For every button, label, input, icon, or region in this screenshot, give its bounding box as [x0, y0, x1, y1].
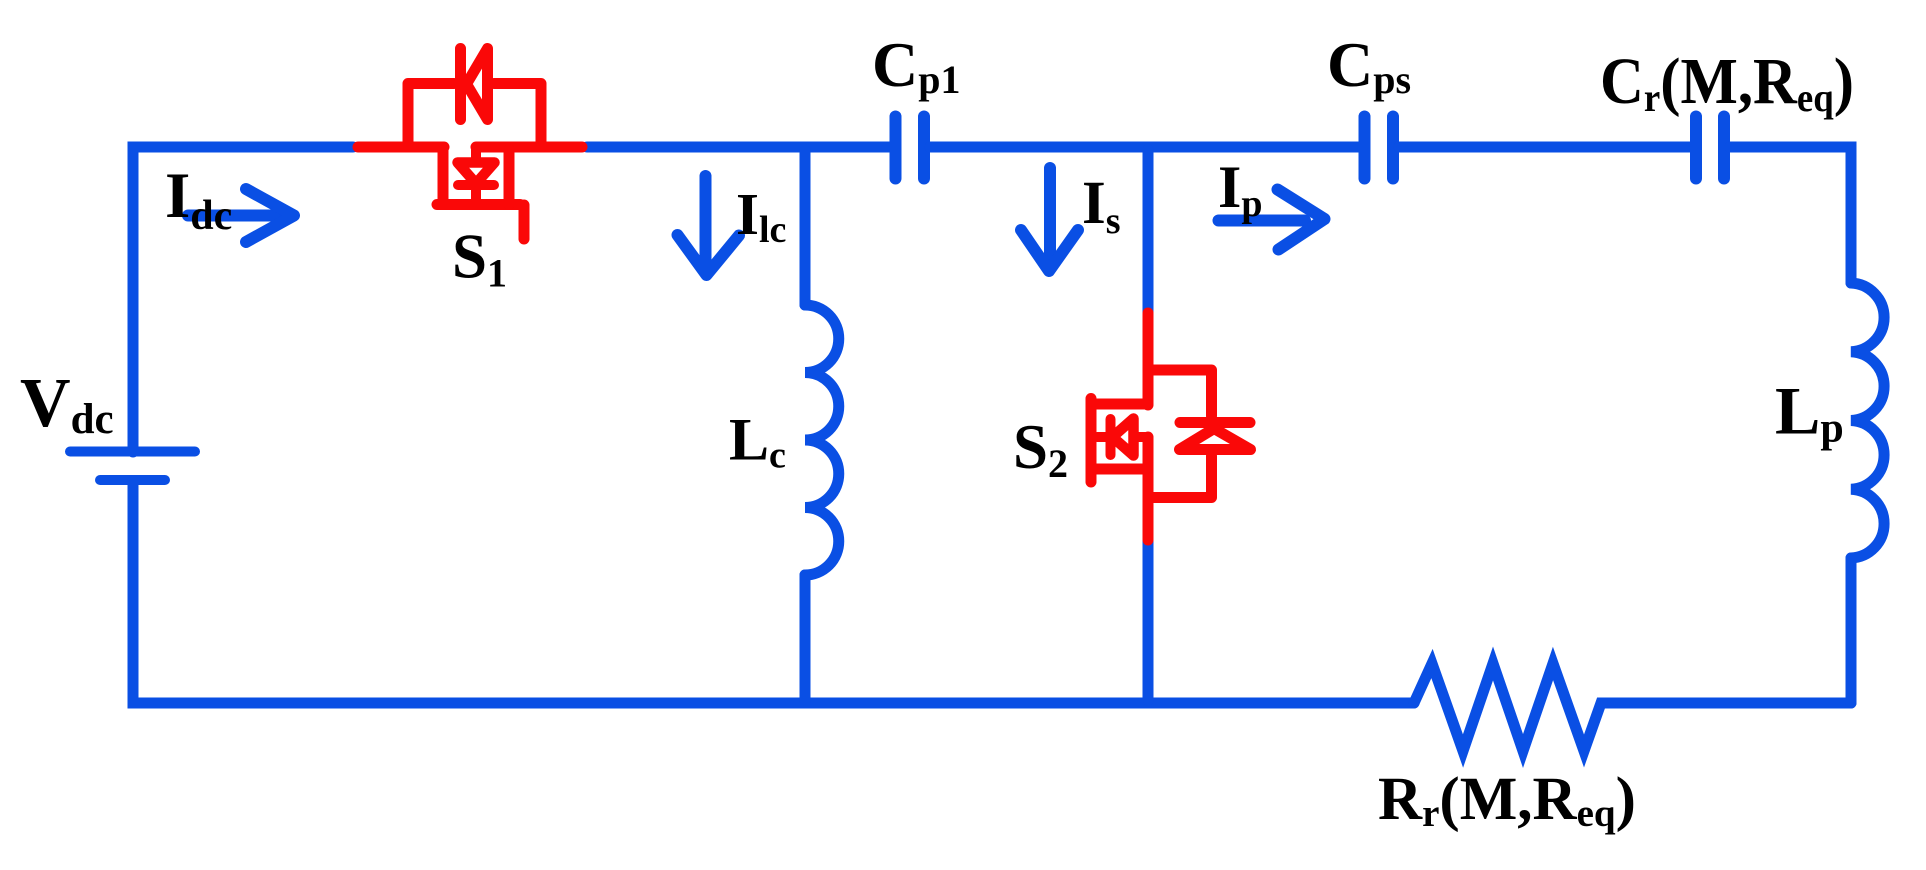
- capacitor C_r plate left: [1690, 117, 1702, 179]
- S1 mosfet tiny diode triangle: [458, 163, 495, 184]
- S2 mosfet tiny diode triangle: [1113, 419, 1134, 456]
- S2 mosfet center horizontal: [1097, 432, 1145, 442]
- arrow I_s shaft: [1044, 168, 1056, 256]
- capacitor C_r plate right: [1718, 117, 1730, 179]
- wire top-left from S1 to left corner and down to battery: [133, 147, 353, 452]
- inductor L_p coil: [1851, 283, 1884, 558]
- S1 mosfet cage right bar: [504, 150, 515, 205]
- wire right vertical below L_p: [1846, 558, 1857, 703]
- S1 diode loop right lead and right vertical: [494, 84, 541, 148]
- battery V_dc long plate: [70, 447, 195, 457]
- S1 mosfet center vertical: [471, 150, 481, 200]
- S1 diode loop left vertical and top lead: [408, 84, 454, 148]
- S2 diode cathode bar: [1180, 417, 1250, 428]
- resistor R_r zigzag: [1414, 664, 1851, 752]
- wire S2 branch bottom blue: [1143, 540, 1154, 700]
- S1 mosfet cage left bar: [438, 150, 449, 205]
- S1 mosfet cage bottom bar: [437, 199, 520, 210]
- wire C_p1 to C_ps through S2 node: [930, 142, 1359, 153]
- S2 diode loop top horizontal: [1148, 370, 1212, 416]
- S2 mosfet cage bottom bar: [1091, 464, 1145, 475]
- svg-text:Ilc: Ilc: [736, 181, 786, 251]
- svg-text:Rr(M,Req): Rr(M,Req): [1378, 766, 1636, 835]
- svg-text:S2: S2: [1013, 412, 1068, 486]
- inductor L_c coil: [805, 305, 839, 575]
- wire C_ps to C_r: [1399, 142, 1691, 153]
- wire top-right corner down to L_p: [1730, 147, 1851, 283]
- S2 mosfet tiny diode bar: [1106, 419, 1116, 455]
- S2 diode triangle: [1180, 429, 1251, 450]
- S2 mosfet cage left bar: [1086, 399, 1097, 483]
- switch S2 red wire segment on branch: [1143, 313, 1154, 405]
- svg-text:Is: Is: [1082, 170, 1121, 242]
- S1 diode triangle: [467, 49, 488, 120]
- arrow I_p head: [1278, 190, 1325, 250]
- battery V_dc short plate: [100, 475, 165, 485]
- wire top from S1 to C_p1: [587, 142, 890, 153]
- arrow I_lc head: [678, 235, 740, 275]
- switch S1 red wire segment on main line: [358, 142, 444, 153]
- arrow I_s head: [1021, 230, 1078, 271]
- arrow I_dc head: [246, 189, 294, 242]
- capacitor C_p1 plate left: [890, 117, 902, 179]
- wire L_c branch bottom: [800, 575, 811, 700]
- svg-text:Lp: Lp: [1775, 373, 1844, 452]
- arrow I_p shaft: [1219, 215, 1306, 227]
- arrow I_dc shaft: [188, 210, 280, 222]
- S2 mosfet cage top bar: [1091, 399, 1145, 410]
- S1 gate tail: [519, 205, 530, 239]
- S2 diode loop bottom: [1148, 456, 1212, 498]
- svg-text:Ip: Ip: [1218, 154, 1263, 225]
- svg-text:S1: S1: [452, 222, 507, 296]
- svg-text:Lc: Lc: [729, 407, 786, 477]
- capacitor C_p1 plate right: [918, 117, 930, 179]
- svg-text:Idc: Idc: [165, 160, 232, 239]
- svg-text:Vdc: Vdc: [20, 365, 114, 443]
- S1 mosfet tiny diode bar: [458, 180, 494, 190]
- S1 diode cathode bar: [455, 49, 466, 120]
- svg-text:Cr(M,Req): Cr(M,Req): [1600, 45, 1854, 120]
- arrow I_lc shaft: [700, 176, 712, 260]
- wire battery to bottom-left corner and bottom run to resistor: [133, 481, 1414, 703]
- svg-text:Cp1: Cp1: [872, 29, 960, 102]
- wire S2 branch top blue: [1143, 150, 1154, 316]
- capacitor C_ps plate right: [1387, 117, 1399, 179]
- capacitor C_ps plate left: [1359, 117, 1371, 179]
- wire L_c branch top: [800, 150, 811, 305]
- svg-text:Cps: Cps: [1327, 29, 1411, 102]
